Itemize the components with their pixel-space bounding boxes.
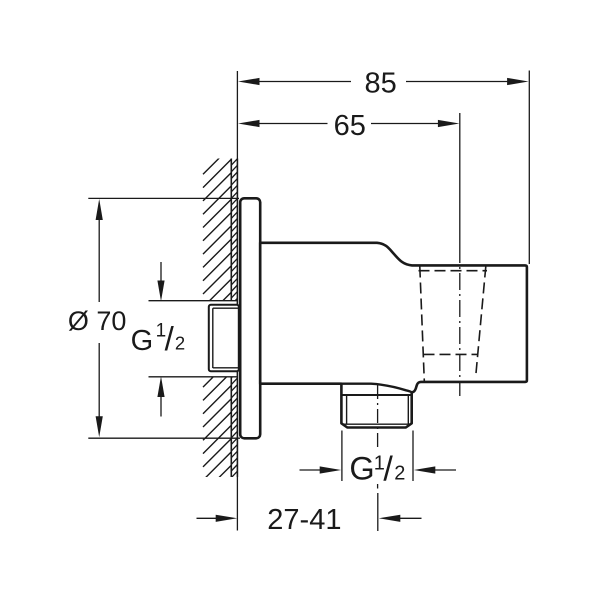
body underside curve into nipple	[341, 384, 412, 393]
svg-text:Ø 70: Ø 70	[68, 306, 127, 336]
wire dia70 tick bottom	[88, 437, 240, 439]
wire dim 27-41 arrow left	[197, 515, 238, 522]
node flange escutcheon	[240, 198, 260, 438]
wire right extension line 85	[528, 71, 530, 265]
node G1/2 lower label	[349, 450, 405, 488]
wire G1/2 lower arrow left	[300, 466, 342, 473]
wire left extension line	[236, 71, 238, 159]
wire G1/2 upper arrow top	[157, 262, 164, 301]
wire G1/2 upper arrow bottom	[157, 376, 164, 416]
wire dia70 tick top	[88, 197, 239, 199]
svg-text:2: 2	[175, 333, 185, 354]
holder hidden contour top dashed	[419, 270, 488, 272]
wire outlet centerline	[377, 385, 379, 448]
wire G1/2 lower ext left	[341, 431, 343, 482]
svg-text:27-41: 27-41	[267, 504, 341, 536]
wire dia70 dimension line	[96, 199, 103, 437]
holder hidden rib dashed	[424, 353, 478, 355]
nipple thread root left	[346, 395, 348, 424]
svg-text:G: G	[131, 325, 154, 357]
wire G1/2 lower arrow right	[414, 466, 456, 473]
wall inner line	[230, 159, 232, 478]
wire G1/2 lower ext right	[412, 431, 414, 482]
wire dim-65 dimension line	[238, 120, 459, 127]
node G1/2 upper label	[131, 320, 186, 357]
wire extension line 27-41 left	[236, 477, 238, 531]
svg-text:/: /	[165, 320, 175, 357]
holder hidden contour right slant	[476, 267, 486, 377]
svg-text:65: 65	[334, 110, 366, 142]
svg-text:/: /	[383, 450, 393, 488]
wire dim 27-41 arrow right	[379, 515, 422, 522]
nipple thread shoulder	[342, 394, 411, 396]
svg-text:2: 2	[394, 463, 405, 485]
svg-text:85: 85	[365, 68, 397, 100]
wall hatching narrow band	[231, 152, 237, 484]
body main outline	[260, 243, 527, 428]
wire extension-centerline 65 lower part	[459, 246, 461, 396]
wire dim-85 dimension line	[238, 78, 529, 85]
wire G1/2 upper tick bottom	[149, 376, 238, 378]
wire extension-centerline 65 upper part	[459, 113, 461, 246]
holder hidden contour left slant	[420, 267, 425, 382]
pipe G1/2 wall inlet thread	[209, 305, 239, 372]
wall surface line	[236, 159, 238, 478]
wire G1/2 upper tick top	[149, 300, 238, 302]
nipple end line	[342, 423, 412, 425]
nipple thread root right	[407, 395, 409, 424]
wall hatching wide band	[203, 146, 231, 507]
svg-text:G: G	[349, 451, 374, 487]
